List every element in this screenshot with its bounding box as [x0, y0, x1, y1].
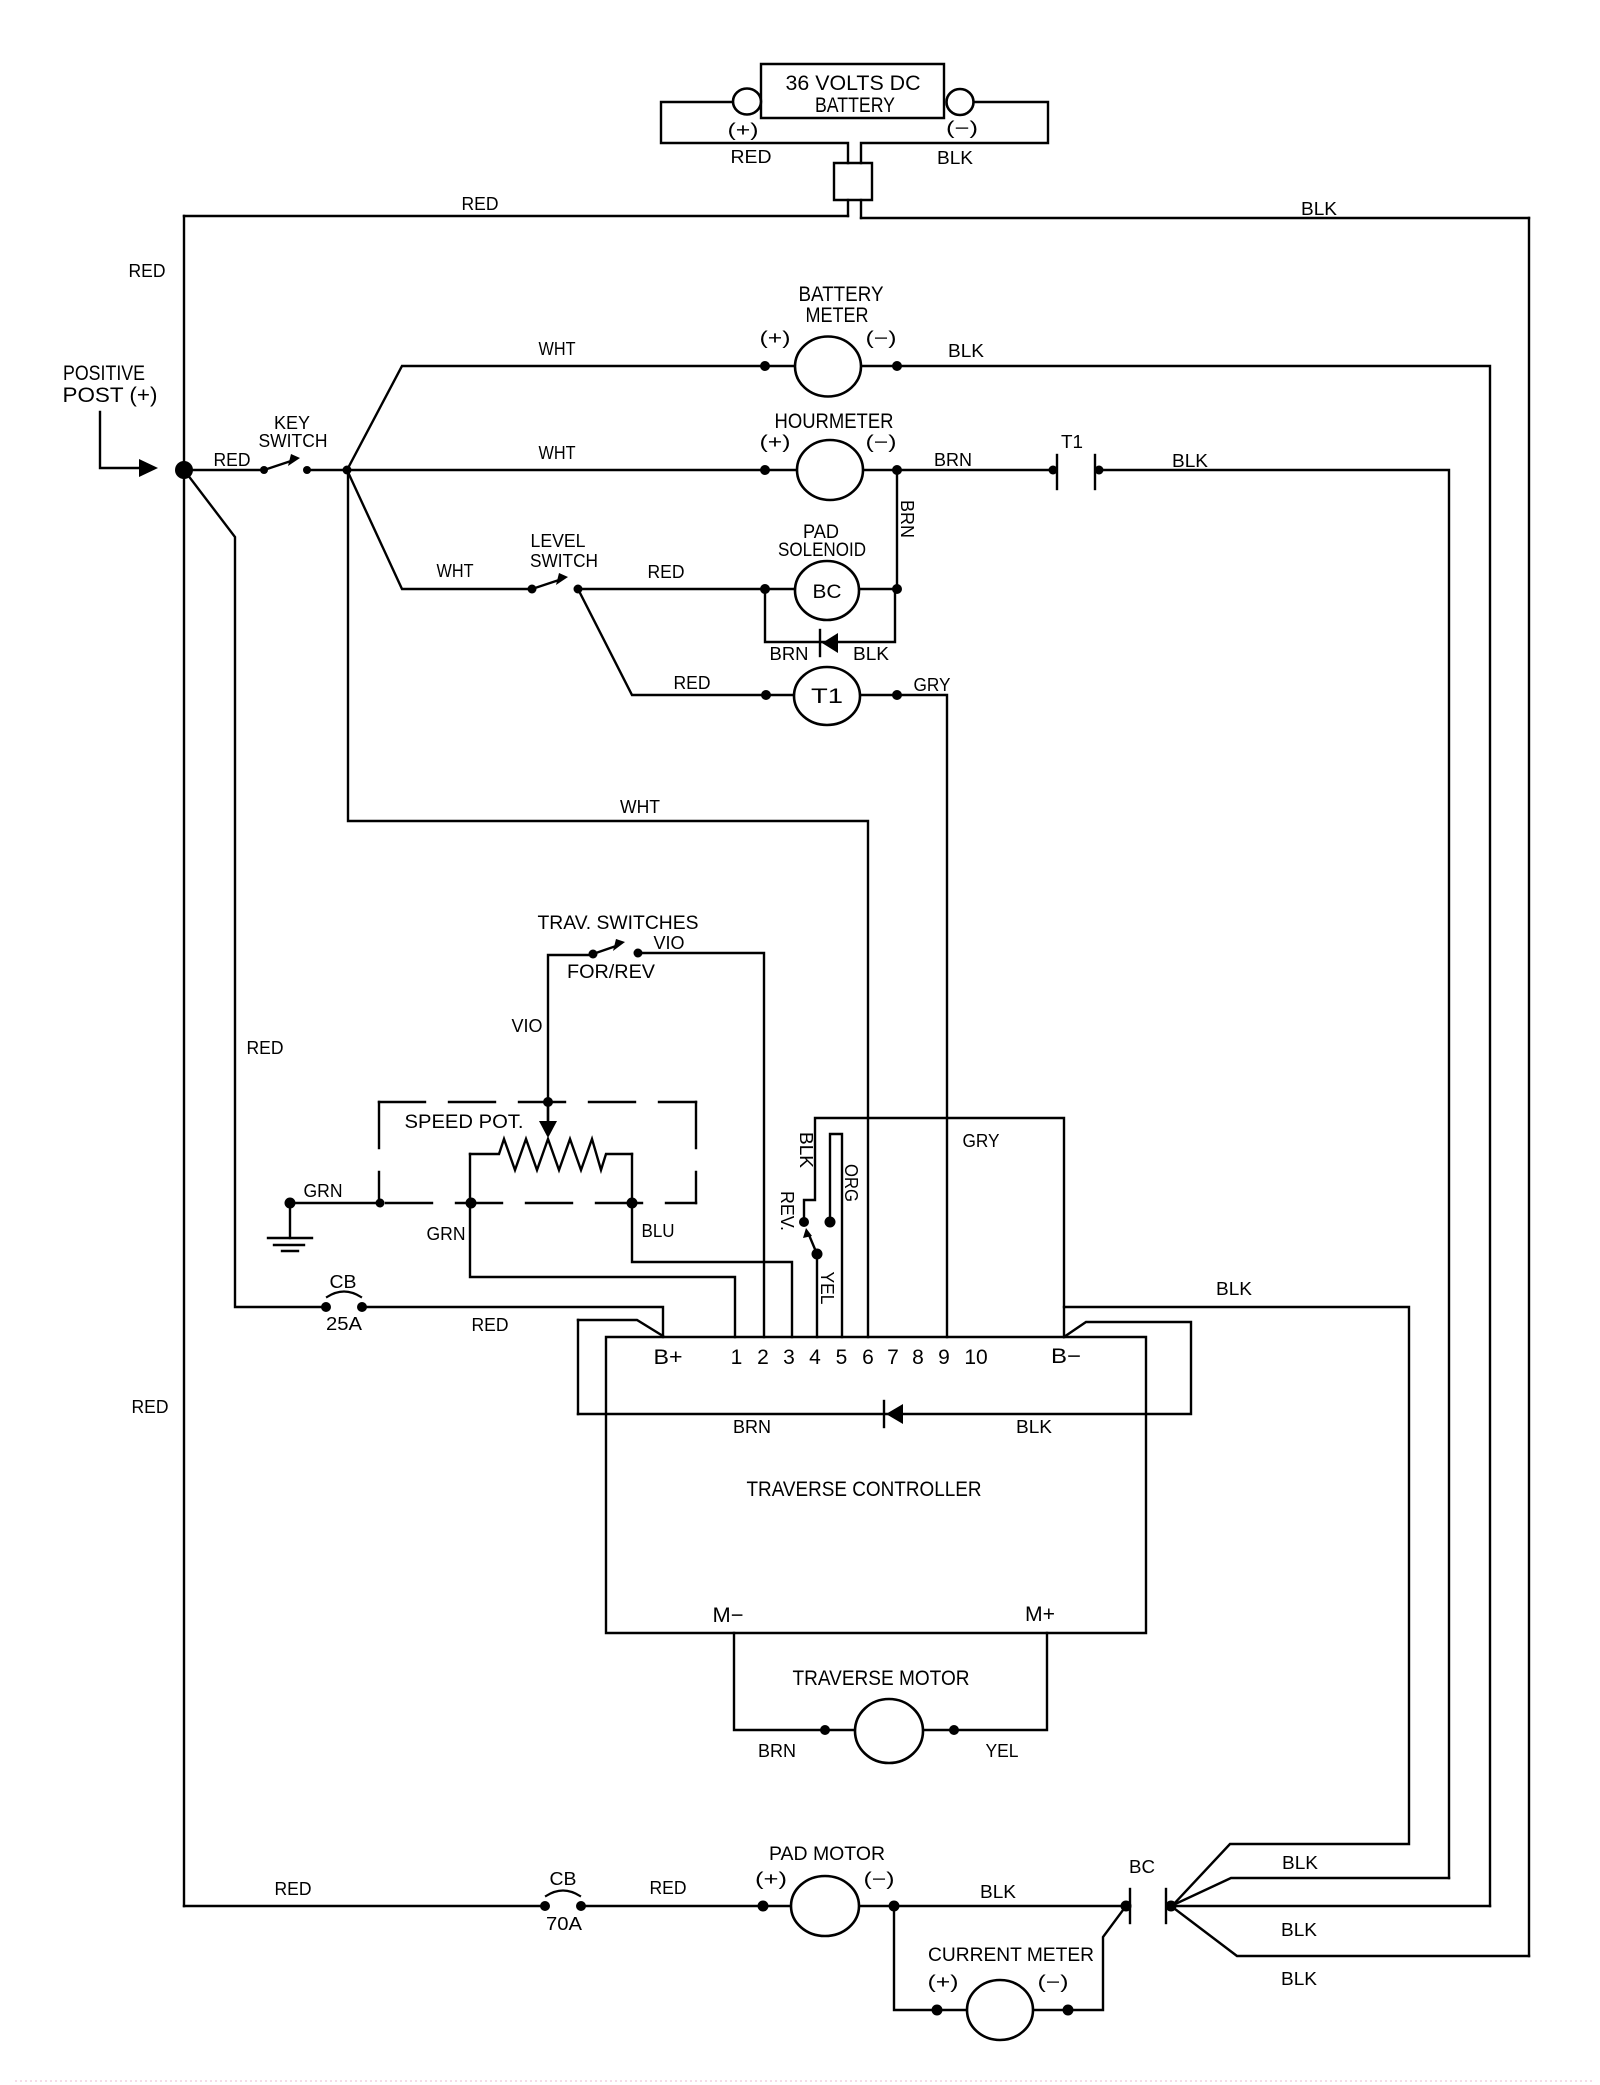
svg-text:7: 7 — [887, 1346, 899, 1369]
svg-text:RED: RED — [674, 673, 711, 693]
svg-text:BLK: BLK — [1281, 1920, 1317, 1940]
svg-text:BLK: BLK — [1016, 1417, 1052, 1437]
svg-text:POST (+): POST (+) — [63, 384, 158, 407]
svg-text:PAD MOTOR: PAD MOTOR — [769, 1844, 885, 1865]
svg-text:GRY: GRY — [963, 1131, 1000, 1151]
svg-text:CURRENT METER: CURRENT METER — [928, 1945, 1094, 1966]
svg-text:KEY: KEY — [274, 413, 310, 433]
svg-text:(−): (−) — [864, 1869, 895, 1889]
svg-text:TRAVERSE CONTROLLER: TRAVERSE CONTROLLER — [747, 1478, 982, 1501]
svg-text:RED: RED — [462, 194, 499, 214]
svg-text:POSITIVE: POSITIVE — [63, 362, 145, 385]
svg-text:RED: RED — [214, 450, 251, 470]
svg-text:9: 9 — [938, 1346, 950, 1369]
svg-text:BLK: BLK — [1282, 1853, 1318, 1873]
svg-text:SPEED POT.: SPEED POT. — [405, 1112, 524, 1133]
svg-text:WHT: WHT — [620, 797, 660, 817]
svg-text:BRN: BRN — [758, 1741, 796, 1761]
svg-text:BATTERY: BATTERY — [815, 94, 895, 117]
svg-text:BLU: BLU — [642, 1221, 675, 1241]
svg-text:CB: CB — [550, 1869, 577, 1889]
svg-text:TRAV. SWITCHES: TRAV. SWITCHES — [538, 913, 699, 934]
svg-text:B+: B+ — [654, 1346, 683, 1369]
svg-text:BLK: BLK — [980, 1882, 1016, 1902]
svg-text:BLK: BLK — [1172, 451, 1208, 471]
svg-text:FOR/REV: FOR/REV — [567, 962, 655, 983]
svg-text:8: 8 — [912, 1346, 924, 1369]
svg-text:T1: T1 — [1061, 432, 1083, 452]
svg-text:GRN: GRN — [427, 1224, 466, 1244]
svg-text:RED: RED — [472, 1315, 509, 1335]
svg-text:BLK: BLK — [853, 644, 889, 664]
svg-text:BRN: BRN — [934, 450, 972, 470]
svg-text:BC: BC — [813, 582, 842, 603]
svg-text:BRN: BRN — [733, 1417, 771, 1437]
svg-text:RED: RED — [648, 562, 685, 582]
svg-text:6: 6 — [862, 1346, 874, 1369]
svg-text:BLK: BLK — [1301, 199, 1337, 219]
svg-text:(+): (+) — [928, 1972, 959, 1992]
svg-text:YEL: YEL — [986, 1741, 1019, 1761]
svg-text:(−): (−) — [866, 432, 897, 452]
svg-text:WHT: WHT — [539, 443, 576, 463]
svg-text:LEVEL: LEVEL — [531, 531, 586, 551]
svg-text:10: 10 — [964, 1346, 987, 1369]
svg-text:GRY: GRY — [914, 675, 951, 695]
svg-text:SWITCH: SWITCH — [530, 551, 598, 571]
svg-text:HOURMETER: HOURMETER — [775, 410, 894, 433]
svg-text:SOLENOID: SOLENOID — [778, 540, 866, 561]
svg-text:BRN: BRN — [770, 644, 809, 664]
svg-text:ORG: ORG — [841, 1164, 861, 1202]
svg-text:3: 3 — [783, 1346, 795, 1369]
svg-text:RED: RED — [247, 1038, 284, 1058]
svg-text:(+): (+) — [755, 1869, 787, 1889]
svg-text:BLK: BLK — [948, 341, 984, 361]
svg-text:SWITCH: SWITCH — [259, 431, 328, 451]
svg-text:RED: RED — [132, 1397, 169, 1417]
svg-text:(+): (+) — [760, 328, 791, 348]
svg-text:25A: 25A — [326, 1314, 362, 1334]
svg-text:(+): (+) — [728, 120, 759, 140]
svg-text:RED: RED — [275, 1879, 312, 1899]
svg-text:1: 1 — [731, 1346, 743, 1369]
svg-text:BLK: BLK — [796, 1132, 816, 1168]
svg-text:RED: RED — [731, 147, 772, 167]
svg-text:2: 2 — [757, 1346, 769, 1369]
svg-text:5: 5 — [836, 1346, 848, 1369]
svg-text:M−: M− — [713, 1604, 744, 1627]
svg-text:4: 4 — [809, 1346, 821, 1369]
svg-text:WHT: WHT — [539, 339, 576, 359]
svg-text:BLK: BLK — [1216, 1279, 1252, 1299]
svg-text:(−): (−) — [1038, 1972, 1069, 1992]
svg-text:REV.: REV. — [777, 1191, 797, 1231]
svg-text:M+: M+ — [1025, 1603, 1055, 1626]
svg-text:70A: 70A — [546, 1914, 582, 1934]
svg-text:RED: RED — [129, 261, 166, 281]
svg-text:T1: T1 — [811, 685, 843, 708]
svg-text:BLK: BLK — [1281, 1969, 1317, 1989]
svg-text:RED: RED — [650, 1878, 687, 1898]
svg-text:CB: CB — [330, 1272, 357, 1292]
svg-text:(+): (+) — [760, 432, 791, 452]
svg-text:GRN: GRN — [304, 1181, 343, 1201]
svg-text:YEL: YEL — [817, 1272, 837, 1305]
svg-text:BC: BC — [1129, 1857, 1155, 1877]
svg-text:TRAVERSE MOTOR: TRAVERSE MOTOR — [793, 1667, 970, 1690]
svg-text:BLK: BLK — [937, 148, 973, 168]
svg-text:METER: METER — [806, 304, 869, 327]
svg-text:B−: B− — [1051, 1345, 1081, 1368]
svg-text:VIO: VIO — [654, 933, 685, 953]
svg-text:36 VOLTS DC: 36 VOLTS DC — [786, 72, 921, 95]
svg-text:(−): (−) — [946, 118, 978, 138]
svg-text:(−): (−) — [866, 328, 897, 348]
svg-text:WHT: WHT — [437, 561, 474, 581]
svg-text:BRN: BRN — [897, 500, 917, 538]
svg-text:VIO: VIO — [512, 1016, 543, 1036]
svg-text:BATTERY: BATTERY — [799, 283, 884, 306]
